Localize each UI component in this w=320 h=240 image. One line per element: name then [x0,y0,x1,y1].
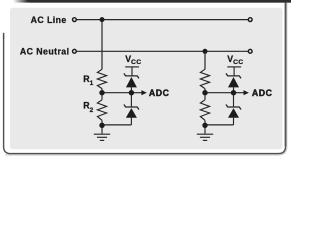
svg-text:1: 1 [90,80,94,87]
svg-text:ADC: ADC [149,88,170,98]
svg-text:ADC: ADC [252,88,273,98]
svg-text:AC Neutral: AC Neutral [20,46,70,56]
svg-text:2: 2 [90,107,94,114]
svg-text:AC Line: AC Line [31,15,67,25]
svg-text:CC: CC [131,59,141,66]
svg-text:CC: CC [233,59,243,66]
